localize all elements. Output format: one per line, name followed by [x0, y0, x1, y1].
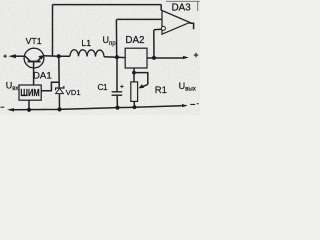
svg-text:VT1: VT1: [26, 36, 42, 46]
wire Upr feedback riser: [116, 19, 161, 57]
bottom right arrow terminal: [182, 104, 188, 107]
svg-text:DA3: DA3: [172, 2, 192, 13]
wire inverting feedback: [154, 29, 162, 58]
minus sign input terminal: [1, 106, 5, 108]
wire wiper branch: [134, 73, 148, 85]
capacitor C1: [112, 92, 123, 95]
wire collector to coil: [44, 55, 71, 57]
wire R1 bottom lead: [133, 101, 135, 107]
svg-text:C1: C1: [98, 83, 109, 92]
op-amp DA3: [161, 11, 189, 35]
wire DA2 output: [147, 57, 184, 59]
IC DA1 PWM box: [19, 85, 41, 100]
plus sign input terminal: [3, 54, 7, 58]
node R1 top: [132, 71, 136, 75]
IC DA2: [125, 48, 147, 68]
wire coil to DA2: [104, 56, 125, 59]
wire C1 branch: [116, 57, 118, 107]
node PWM ground: [27, 108, 31, 112]
wire top rail: [53, 4, 162, 6]
wire base lead to box: [33, 68, 35, 85]
wire DA3 output hook: [190, 23, 194, 29]
wiper arrow of R1: [143, 84, 148, 86]
node C1 ground: [115, 106, 119, 110]
svg-text:DA1: DA1: [33, 70, 52, 81]
diode VD1: [56, 86, 64, 94]
node DA3 inverting feed: [152, 56, 156, 60]
wire DA2 bottom lead: [133, 68, 135, 82]
minus sign output terminal: [190, 103, 198, 106]
border artifact top right: [166, 1, 200, 11]
svg-text:DA2: DA2: [125, 35, 144, 46]
wire emitter lead: [15, 55, 25, 57]
input arrow terminal: [10, 55, 16, 58]
node switch junction: [57, 54, 61, 58]
plus sign output terminal: [194, 53, 199, 58]
svg-text:ШИМ: ШИМ: [20, 88, 39, 99]
output arrow terminal: [183, 56, 189, 59]
wire riser to top rail: [52, 5, 54, 57]
bottom left arrow terminal: [7, 108, 14, 111]
inductor L1: [70, 50, 104, 57]
wire rail drop to op-amp: [160, 5, 162, 11]
node R1 ground: [133, 105, 137, 109]
plus sign capacitor polarity: [120, 85, 123, 88]
node VD1 ground: [57, 107, 61, 111]
resistor R1: [131, 82, 138, 102]
wire bottom rail: [13, 106, 182, 110]
node Upr: [115, 55, 119, 59]
wire PWM bottom lead: [28, 100, 30, 110]
svg-text:VD1: VD1: [66, 88, 81, 97]
transistor VT1: [24, 48, 44, 68]
wire PWM right jog: [41, 82, 59, 91]
wire diode branch: [58, 56, 61, 109]
svg-text:R1: R1: [155, 85, 167, 96]
svg-text:L1: L1: [81, 38, 91, 48]
